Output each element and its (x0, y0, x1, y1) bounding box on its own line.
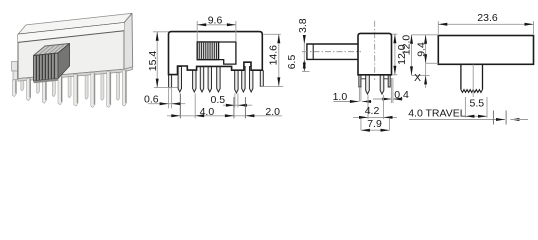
svg-text:9.4: 9.4 (415, 42, 427, 57)
top actuator centerline (472, 65, 474, 98)
dim 7.9 (361, 119, 390, 130)
svg-text:4.2: 4.2 (365, 105, 380, 117)
side shaft (307, 44, 358, 59)
side pins (366, 75, 370, 94)
iso pins front row (12, 70, 126, 107)
side body (358, 33, 392, 74)
front slider window (197, 42, 236, 64)
iso knob top face (34, 44, 70, 56)
dim 0.5 (223, 94, 252, 108)
top actuator (461, 64, 483, 89)
dim 4.0 (167, 94, 282, 119)
svg-text:5.5: 5.5 (469, 98, 484, 110)
svg-text:6.5: 6.5 (286, 55, 298, 70)
iso cover bottom edge (18, 31, 124, 43)
side feet (359, 75, 361, 87)
iso body left tabs (12, 62, 18, 72)
dim 0.6 (148, 89, 185, 109)
front body outline (169, 32, 263, 75)
svg-text:3.8: 3.8 (297, 18, 309, 33)
svg-text:15.4: 15.4 (147, 51, 159, 72)
front knob ribs (199, 43, 216, 59)
dim 9.6 (197, 21, 236, 41)
svg-text:4.0: 4.0 (200, 106, 215, 118)
dim 12.0 top (412, 35, 430, 76)
top actuator zigzag (461, 90, 483, 93)
dim 14.6 (260, 34, 283, 86)
iso bottom seat band (18, 67, 133, 81)
dim 5.5 (465, 97, 487, 118)
iso knob ribs (36, 54, 54, 81)
side shaft cap line (312, 44, 314, 59)
svg-text:14.6: 14.6 (267, 45, 279, 66)
svg-text:X: X (414, 72, 421, 84)
side shaft centerline (302, 51, 361, 53)
front left foot (169, 75, 172, 88)
svg-text:7.9: 7.9 (367, 118, 382, 130)
iso knob top hatch (39, 44, 65, 55)
dim 3.8 / 6.5 column (303, 36, 305, 72)
dim 15.4 (153, 32, 178, 88)
front pins (178, 67, 253, 94)
dim 12.0 side (392, 34, 397, 75)
iso body right face (124, 13, 133, 69)
svg-text:23.6: 23.6 (477, 12, 498, 24)
front knob (197, 42, 218, 60)
dim 4.2 (353, 95, 397, 119)
dim 9.4 (412, 35, 439, 64)
dim 23.6 (438, 21, 533, 34)
iso knob shadow under (34, 79, 59, 84)
dim 0.4 (373, 78, 403, 103)
iso front-top edge (18, 23, 124, 35)
svg-text:0.6: 0.6 (144, 93, 159, 105)
svg-text:1.0: 1.0 (333, 91, 348, 103)
top body (438, 36, 533, 65)
svg-text:4.0 TRAVEL: 4.0 TRAVEL (408, 108, 466, 120)
svg-text:0.5: 0.5 (210, 94, 225, 106)
svg-text:2.0: 2.0 (265, 106, 280, 118)
iso pins back row (21, 68, 120, 100)
dim 2.0 (234, 97, 246, 118)
svg-text:9.6: 9.6 (208, 14, 223, 26)
svg-text:12.0: 12.0 (401, 35, 413, 56)
svg-text:0.4: 0.4 (394, 89, 409, 101)
dim 1.0 (334, 88, 372, 102)
iso knob front ribbed face (34, 53, 59, 81)
side step lines (361, 78, 388, 80)
iso pin shading lines (16, 71, 126, 105)
iso body top face (18, 13, 132, 34)
side centerline vertical (374, 21, 376, 80)
iso metal cover band on front face (18, 23, 124, 43)
iso body front face (18, 23, 124, 79)
dim X (425, 63, 427, 88)
iso knob right face (58, 44, 70, 79)
front right foot (260, 70, 263, 86)
